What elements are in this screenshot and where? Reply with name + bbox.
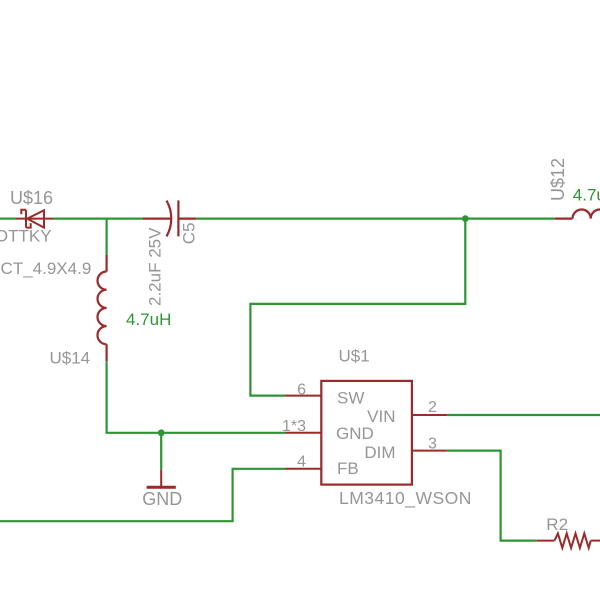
svg-text:INDUCT_4.9X4.9: INDUCT_4.9X4.9: [0, 259, 91, 278]
svg-text:C5: C5: [180, 222, 199, 244]
svg-text:SCHOTTKY: SCHOTTKY: [0, 226, 52, 245]
junction dot on VOUT net: [462, 215, 469, 222]
svg-text:SW: SW: [337, 389, 364, 408]
svg-text:FB: FB: [337, 459, 359, 478]
resistor R2: [537, 533, 600, 548]
inductor U$14: [97, 255, 106, 361]
wire net VOUT left segment: [0, 218, 16, 220]
ground symbol: [147, 470, 176, 488]
IC U1 box: [321, 381, 412, 485]
svg-text:1*3: 1*3: [282, 418, 306, 435]
wire FB to bottom left: [0, 469, 286, 521]
svg-text:U$14: U$14: [50, 349, 91, 368]
svg-text:U$1: U$1: [339, 347, 370, 366]
svg-text:DIM: DIM: [364, 443, 395, 462]
pin 4 FB stub: [286, 468, 322, 470]
svg-text:LM3410_WSON: LM3410_WSON: [339, 488, 472, 509]
junction dot on GND bus: [158, 429, 165, 436]
pin 3 DIM stub: [412, 450, 447, 452]
svg-text:2.2uF 25V: 2.2uF 25V: [146, 227, 165, 306]
pin 1*3 GND stub: [286, 432, 322, 434]
svg-text:4.7uH: 4.7uH: [126, 310, 171, 329]
wire junction to SW pin (down, left, down, right): [250, 219, 465, 396]
wire inductor U$14 to GND bus: [105, 361, 107, 433]
svg-text:4: 4: [297, 454, 306, 471]
wire VIN output: [447, 414, 600, 416]
svg-text:3: 3: [428, 435, 437, 452]
svg-text:2: 2: [428, 399, 437, 416]
svg-text:U$16: U$16: [10, 188, 53, 208]
wire capacitor to inductor U$12: [197, 218, 555, 220]
svg-text:U$12: U$12: [548, 158, 568, 201]
svg-text:4.7uH: 4.7uH: [573, 186, 600, 205]
wire GND bus horizontal: [106, 432, 286, 434]
svg-text:R2: R2: [546, 515, 568, 534]
pin 6 SW stub: [286, 395, 322, 397]
wire down to inductor U$14: [105, 219, 107, 255]
capacitor C5: [143, 200, 196, 236]
wire diode to capacitor: [54, 218, 144, 220]
svg-text:6: 6: [297, 381, 306, 398]
wire GND stem: [160, 433, 162, 470]
svg-text:GND: GND: [142, 489, 182, 509]
diode U$16 schottky: [16, 210, 54, 228]
wire DIM to R2: [447, 451, 537, 541]
pin 2 VIN stub: [412, 414, 447, 416]
inductor U$12 (clipped at right): [555, 210, 600, 219]
svg-text:GND: GND: [336, 424, 374, 443]
